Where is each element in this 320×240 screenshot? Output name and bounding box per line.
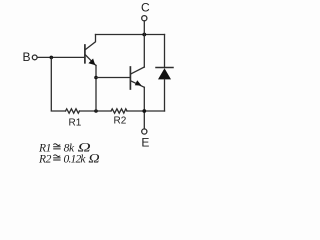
svg-text:E: E xyxy=(141,136,149,150)
diode D1 cathode wire xyxy=(164,35,166,68)
wire mid vertical Q1 emitter to rail xyxy=(95,65,97,111)
terminal circle E xyxy=(142,129,147,134)
wire C terminal lead xyxy=(143,21,145,35)
svg-text:R1: R1 xyxy=(69,118,82,129)
node C junction dot xyxy=(142,33,146,37)
wire R1 to R2 xyxy=(80,110,112,112)
diode D1 anode wire xyxy=(164,79,166,111)
transistor Q1 base bar xyxy=(84,45,86,63)
node E junction dot xyxy=(142,109,146,113)
transistor Q2 base bar xyxy=(129,67,131,89)
wire top rail xyxy=(96,34,165,36)
diode D1 cathode bar xyxy=(156,67,173,69)
svg-text:R2: R2 xyxy=(114,116,127,127)
resistor R2 xyxy=(111,109,127,113)
wire R2 to diode branch xyxy=(127,110,165,112)
node base junction dot xyxy=(50,56,54,60)
terminal circle C xyxy=(142,16,147,21)
wire base B to Q1 xyxy=(37,56,84,58)
svg-text:B: B xyxy=(23,50,31,64)
node mid-rail junction dot xyxy=(94,109,98,113)
diode D1 triangle xyxy=(158,68,171,79)
transistor Q2 emitter lead xyxy=(131,81,144,87)
wire Q2 base xyxy=(96,77,130,79)
terminal circle B xyxy=(32,55,37,60)
value label R1 = 8k ohm xyxy=(38,141,91,155)
wire Q2 emitter vertical to E xyxy=(143,87,145,129)
wire left vertical down to R1 xyxy=(51,57,65,111)
transistor Q2 collector lead xyxy=(131,67,144,74)
transistor Q2 emitter arrow xyxy=(135,80,142,85)
svg-text:R2: R2 xyxy=(38,153,52,165)
value label R2 = 0.12k ohm xyxy=(38,152,100,166)
resistor R1 xyxy=(66,109,80,113)
transistor Q1 emitter arrow xyxy=(88,59,95,66)
transistor Q1 emitter lead xyxy=(86,55,97,66)
wire Q2 collector vertical xyxy=(143,35,145,68)
svg-text:0.12k: 0.12k xyxy=(64,153,87,165)
node Q2 base junction dot xyxy=(94,76,98,80)
svg-text:Ω: Ω xyxy=(88,152,99,166)
transistor Q1 collector lead xyxy=(86,35,96,50)
svg-text:C: C xyxy=(141,1,150,15)
